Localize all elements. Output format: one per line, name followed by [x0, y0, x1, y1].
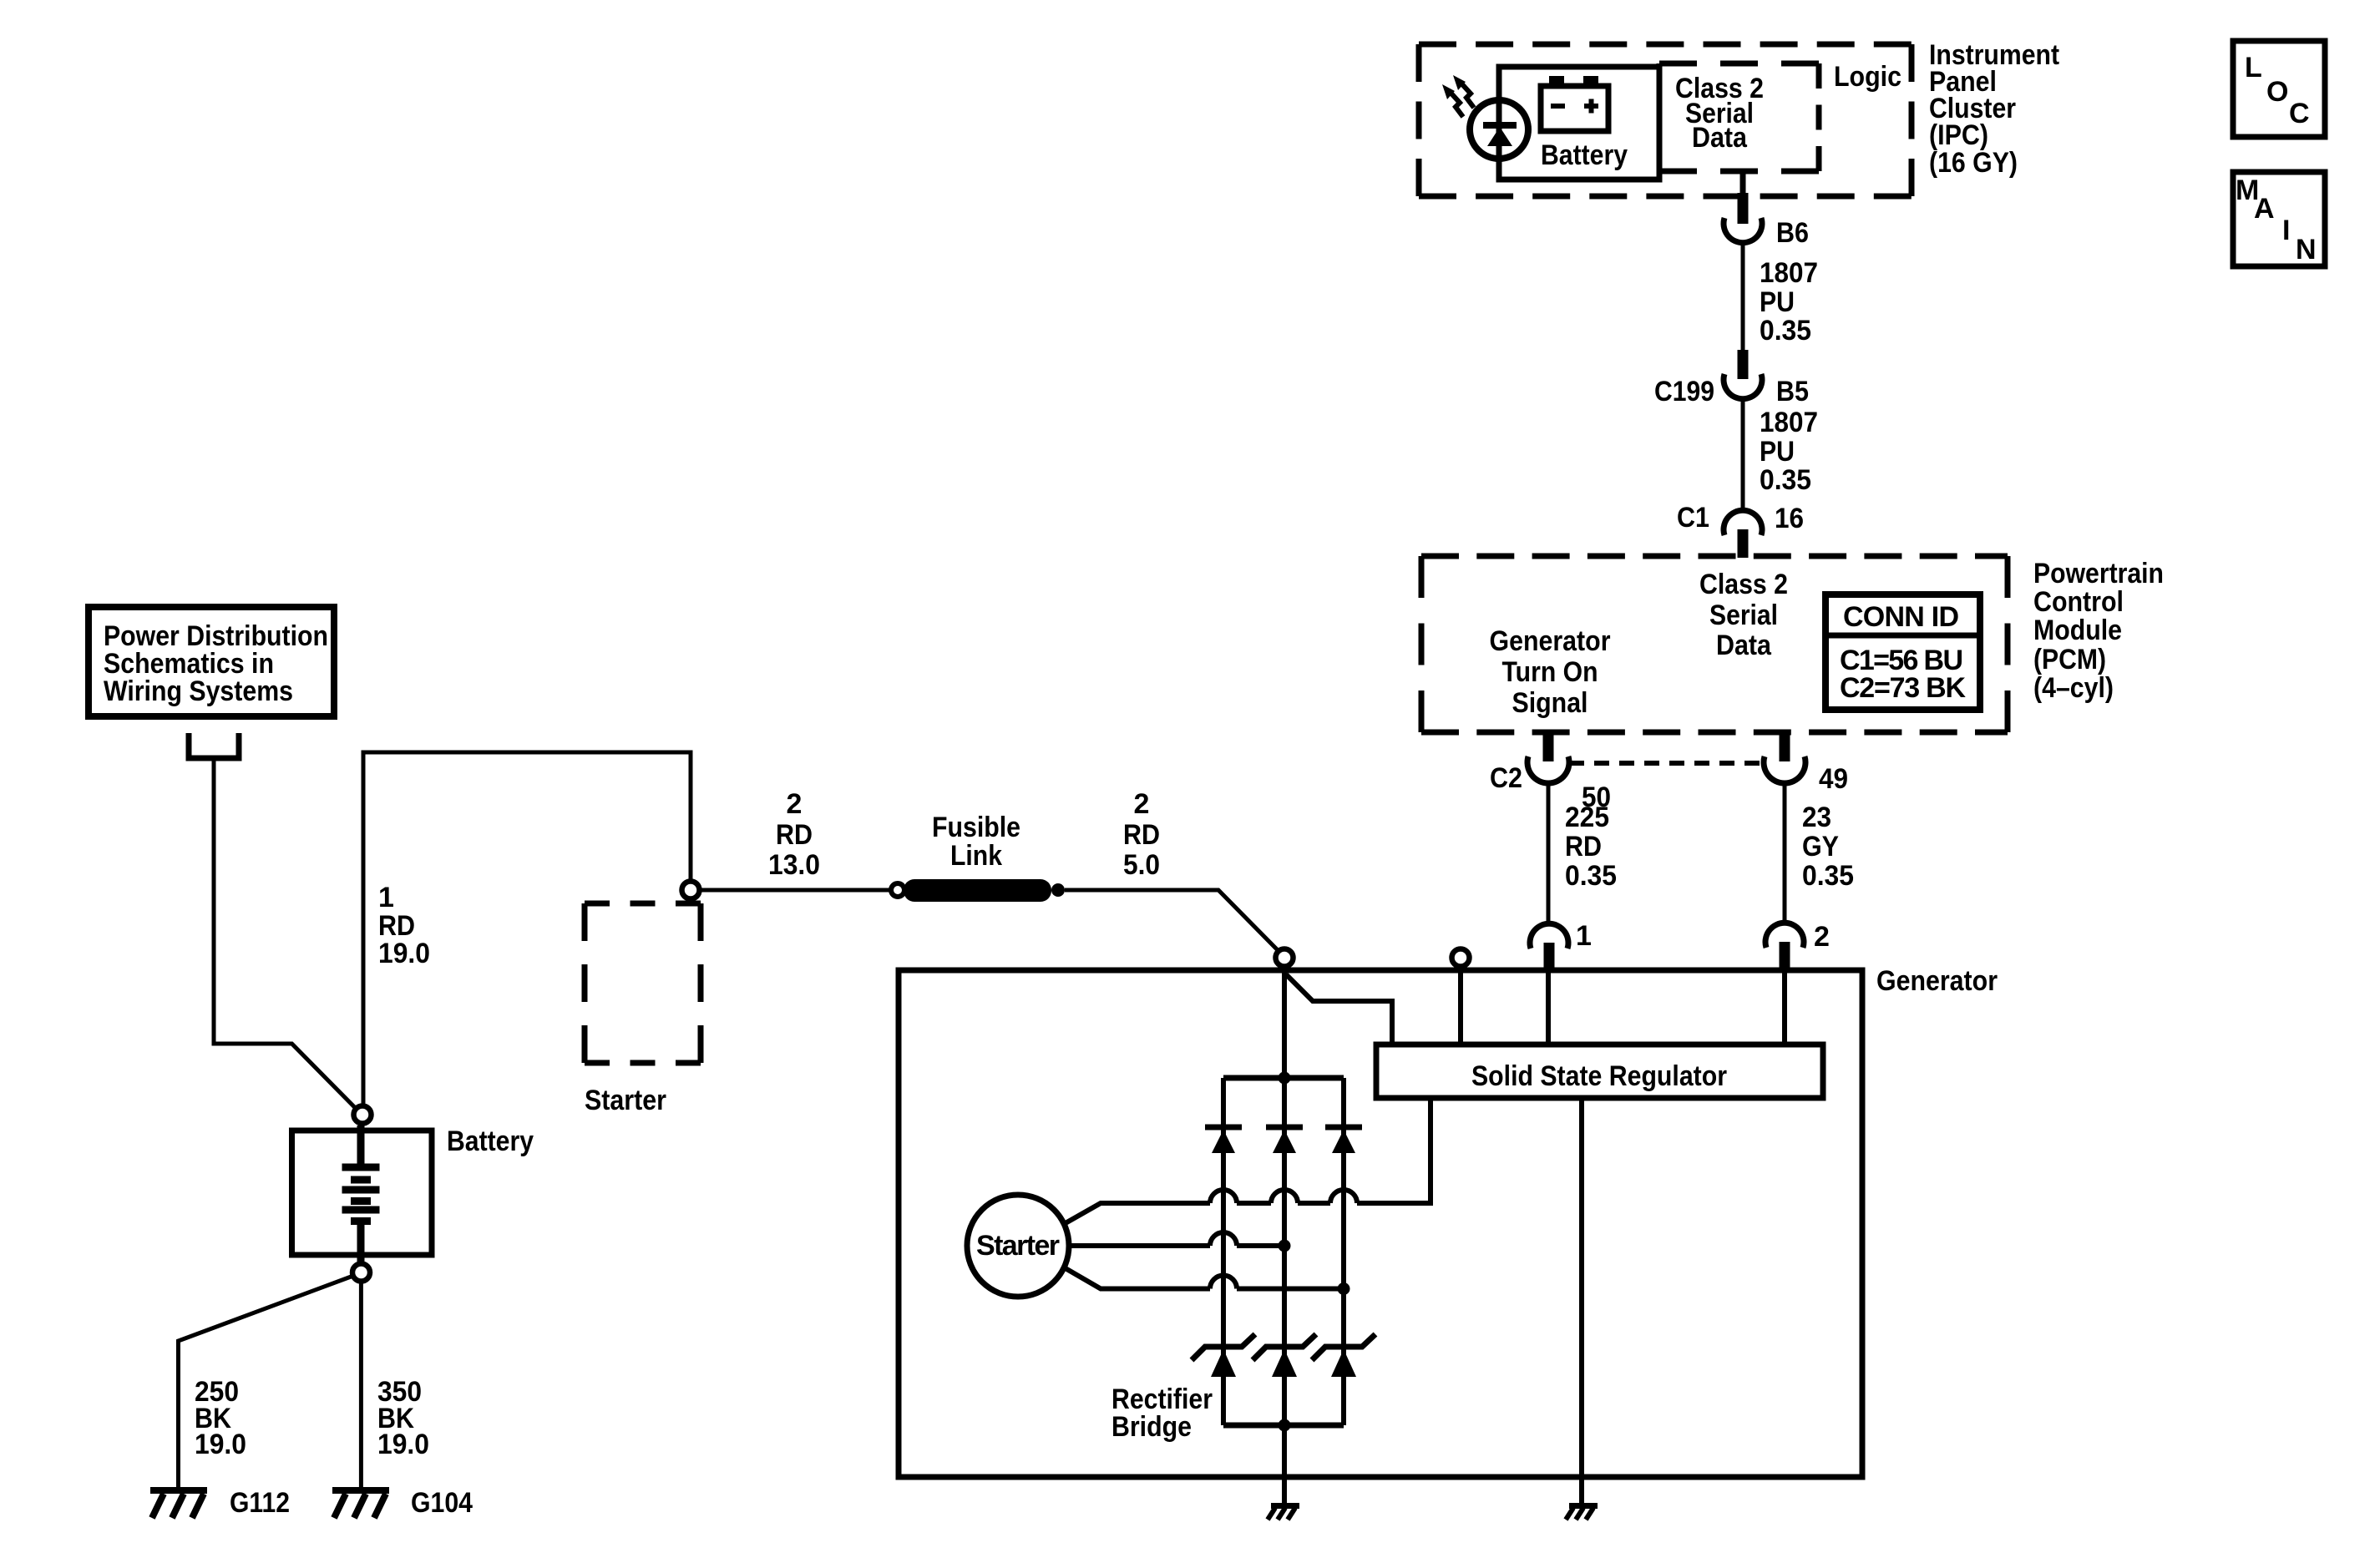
off-page bracket — [189, 733, 239, 758]
svg-text:RD: RD — [1123, 819, 1160, 851]
svg-text:PU: PU — [1760, 286, 1795, 318]
Class 2 Serial Data label (PCM) — [1699, 569, 1788, 661]
svg-text:Data: Data — [1716, 630, 1772, 661]
MAIN reference box — [2233, 172, 2325, 266]
stator phase B wire — [1069, 1232, 1284, 1246]
svg-text:RD: RD — [776, 819, 813, 851]
svg-text:0.35: 0.35 — [1565, 860, 1617, 892]
wire junction B to regulator — [1458, 967, 1463, 1045]
svg-text:19.0: 19.0 — [378, 938, 430, 969]
battery indicator solid box — [1499, 67, 1659, 180]
wire 1807 PU — [1741, 242, 1745, 352]
svg-text:1: 1 — [378, 882, 394, 913]
svg-text:Logic: Logic — [1834, 61, 1901, 93]
avalanche diode D4 — [1192, 1334, 1255, 1360]
wire from power distribution — [214, 758, 355, 1107]
svg-text:5.0: 5.0 — [1123, 849, 1160, 881]
avalanche diode D5 — [1253, 1334, 1316, 1360]
svg-text:1807: 1807 — [1760, 407, 1818, 438]
svg-text:RD: RD — [1565, 831, 1602, 862]
svg-text:PU: PU — [1760, 436, 1795, 468]
Solid State Regulator box — [1376, 1045, 1823, 1098]
diode D3 — [1325, 1127, 1362, 1153]
svg-text:0.35: 0.35 — [1760, 464, 1811, 496]
svg-text:A: A — [2254, 193, 2275, 225]
svg-text:2: 2 — [787, 788, 803, 820]
rectifier vertical 1 — [1221, 1078, 1226, 1425]
svg-text:1: 1 — [1576, 920, 1592, 952]
svg-text:2: 2 — [1814, 921, 1830, 953]
wire 1 RD to battery — [363, 752, 691, 1104]
svg-text:Bridge: Bridge — [1112, 1411, 1192, 1443]
wire 250 BK to G112 — [179, 1276, 354, 1488]
wire junction A to regulator — [1286, 974, 1392, 1045]
battery + junction circle — [354, 1106, 372, 1124]
svg-text:Control: Control — [2033, 586, 2124, 618]
svg-text:Turn On: Turn On — [1502, 656, 1598, 688]
Generator Turn On Signal label — [1490, 625, 1611, 719]
wire pin2 to regulator — [1782, 973, 1787, 1045]
junction circle B on generator case — [1452, 949, 1470, 967]
Power Distribution reference box — [89, 607, 334, 716]
wire stub from IPC — [1740, 171, 1746, 195]
Battery box — [292, 1131, 433, 1255]
fusible link junction circle — [682, 882, 700, 899]
stator phase A wire — [1064, 1100, 1431, 1224]
LED arrows — [1451, 84, 1474, 117]
svg-text:Powertrain: Powertrain — [2033, 558, 2164, 589]
svg-text:C2=73 BK: C2=73 BK — [1840, 672, 1966, 704]
svg-text:C: C — [2289, 98, 2310, 129]
svg-text:GY: GY — [1802, 831, 1839, 862]
wire 2 RD 13.0 — [700, 888, 892, 893]
svg-text:19.0: 19.0 — [377, 1429, 429, 1460]
battery cell symbol — [342, 1126, 380, 1262]
rectifier vertical 2 (output) — [1282, 966, 1287, 1504]
Generator box — [899, 970, 1862, 1477]
generator pin 1 connector — [1530, 923, 1568, 948]
wire 2 RD 5.0 — [1065, 890, 1279, 951]
rectifier vertical 3 — [1341, 1078, 1346, 1425]
svg-text:0.35: 0.35 — [1802, 860, 1854, 892]
svg-text:L: L — [2245, 52, 2262, 83]
rectifier top bus — [1223, 1075, 1344, 1081]
svg-text:C2: C2 — [1490, 762, 1522, 794]
connector C2 pin 50 — [1543, 731, 1554, 761]
svg-text:CONN ID: CONN ID — [1843, 601, 1959, 633]
svg-text:16: 16 — [1775, 503, 1804, 534]
svg-text:B5: B5 — [1776, 376, 1809, 407]
svg-text:G112: G112 — [230, 1487, 290, 1519]
ground (rectifier) — [1268, 1506, 1299, 1520]
Instrument Panel Cluster (IPC) dashed box — [1419, 44, 1912, 196]
avalanche diode D6 — [1312, 1334, 1375, 1360]
svg-text:Generator: Generator — [1490, 625, 1611, 657]
svg-text:B6: B6 — [1776, 217, 1809, 249]
svg-text:225: 225 — [1565, 802, 1609, 833]
battery symbol (IPC) — [1541, 76, 1608, 131]
wire 23 GY — [1783, 783, 1787, 923]
rectifier bottom bus — [1223, 1423, 1344, 1429]
junction circle A on generator case — [1276, 949, 1294, 967]
svg-text:Signal: Signal — [1512, 687, 1588, 719]
svg-text:1807: 1807 — [1760, 257, 1818, 289]
Fusible Link — [891, 883, 904, 897]
battery - junction circle — [352, 1264, 370, 1282]
svg-text:(4–cyl): (4–cyl) — [2033, 672, 2114, 704]
PCM label — [2033, 558, 2164, 704]
svg-text:Wiring Systems: Wiring Systems — [104, 675, 293, 707]
svg-text:G104: G104 — [411, 1487, 473, 1519]
svg-text:23: 23 — [1802, 802, 1831, 833]
Starter circle (generator) — [967, 1195, 1069, 1297]
wire 1807 PU lower — [1741, 399, 1745, 511]
svg-text:Starter: Starter — [585, 1085, 666, 1116]
svg-text:I: I — [2282, 215, 2290, 246]
svg-text:2: 2 — [1134, 788, 1150, 820]
diode D2 — [1266, 1127, 1303, 1153]
svg-text:Class 2: Class 2 — [1699, 569, 1788, 600]
wire pin1 to regulator — [1546, 973, 1551, 1045]
svg-text:Module: Module — [2033, 615, 2122, 646]
svg-text:Battery: Battery — [1541, 139, 1628, 171]
svg-text:Solid State Regulator: Solid State Regulator — [1471, 1060, 1727, 1092]
svg-text:C1: C1 — [1677, 502, 1709, 534]
svg-text:Data: Data — [1692, 122, 1748, 154]
svg-text:13.0: 13.0 — [768, 849, 820, 881]
svg-text:Generator: Generator — [1876, 965, 1998, 997]
svg-text:49: 49 — [1819, 763, 1848, 795]
svg-text:19.0: 19.0 — [195, 1429, 246, 1460]
ground (regulator) — [1566, 1506, 1598, 1520]
svg-text:0.35: 0.35 — [1760, 315, 1811, 347]
svg-text:Battery: Battery — [447, 1126, 534, 1157]
connector B6 — [1724, 218, 1762, 243]
svg-text:Serial: Serial — [1709, 599, 1778, 631]
ground G112 — [150, 1490, 207, 1518]
svg-text:Starter: Starter — [976, 1230, 1060, 1262]
svg-text:(PCM): (PCM) — [2033, 644, 2106, 675]
svg-text:(16 GY): (16 GY) — [1929, 147, 2018, 179]
Class 2 Serial Data dashed box (IPC) — [1659, 63, 1819, 171]
Powertrain Control Module (PCM) dashed box — [1421, 556, 2008, 732]
CONN ID table — [1826, 594, 1980, 710]
regulator ground wire — [1579, 1098, 1584, 1504]
svg-text:N: N — [2296, 234, 2317, 266]
indicator LED circle — [1470, 100, 1528, 159]
wire 350 BK to G104 — [359, 1282, 363, 1489]
ground G104 — [332, 1490, 389, 1518]
connector C1 pin 16 — [1724, 510, 1762, 535]
svg-text:Fusible: Fusible — [932, 812, 1020, 843]
Starter dashed box — [585, 903, 701, 1063]
stator phase C wire — [1064, 1267, 1344, 1289]
IPC label — [1929, 39, 2059, 179]
connector C2 dashed line — [1569, 761, 1762, 766]
generator pin 2 connector — [1765, 923, 1804, 948]
svg-text:C199: C199 — [1654, 376, 1714, 407]
diode D1 — [1205, 1127, 1242, 1153]
svg-text:Link: Link — [950, 840, 1002, 872]
connector C199 B5 — [1738, 350, 1749, 379]
wire 225 RD — [1547, 783, 1551, 924]
connector pin 49 — [1780, 731, 1790, 761]
svg-text:O: O — [2266, 76, 2288, 108]
LOC reference box — [2233, 41, 2325, 137]
